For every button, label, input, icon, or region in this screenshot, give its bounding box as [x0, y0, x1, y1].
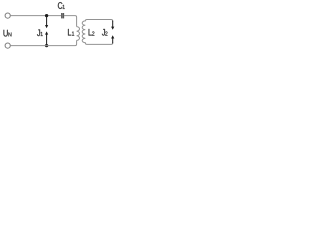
label L2 — [89, 29, 95, 36]
label J2 — [102, 29, 108, 36]
terminal bottom-left — [5, 43, 10, 48]
current source J1 arrow down — [45, 16, 48, 28]
label UN — [4, 30, 12, 37]
current source J2 arrow down — [111, 21, 114, 30]
terminal top-left — [5, 13, 10, 18]
inductor L2 coil — [82, 20, 87, 45]
current source J2 arrow up — [111, 35, 114, 43]
wire right loop top — [87, 20, 113, 22]
node A junction dot top — [45, 14, 48, 17]
inductor L1 coil — [77, 27, 80, 41]
wire right loop bottom — [87, 42, 113, 44]
wire bottom rail with corner up — [10, 40, 76, 45]
wire top rail left segment — [10, 15, 61, 17]
label C1 — [58, 2, 65, 9]
node B junction dot bottom — [45, 44, 48, 47]
label J1 — [37, 29, 43, 36]
current source J1 arrow up — [45, 31, 48, 45]
wire top rail right segment with corner down — [64, 16, 77, 27]
capacitor C1 — [62, 13, 64, 18]
label L1 — [68, 29, 74, 36]
